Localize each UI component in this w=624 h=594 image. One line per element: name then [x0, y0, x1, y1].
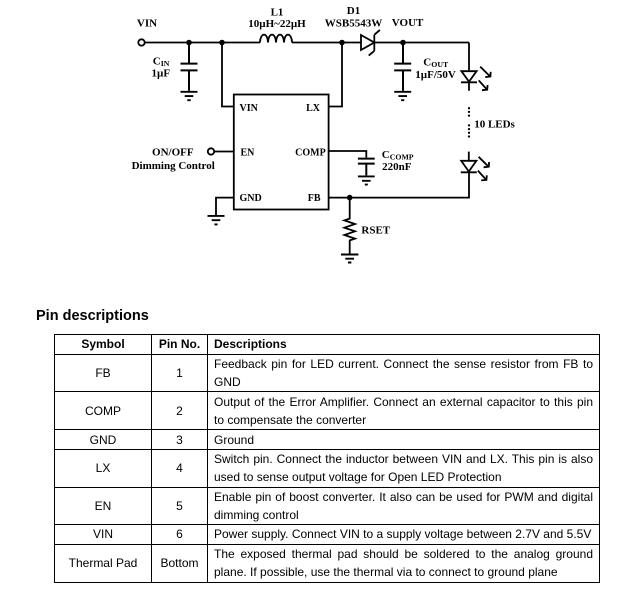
ground below CCOMP — [358, 176, 375, 184]
junction VOUT node — [400, 40, 406, 46]
resistor RSET — [344, 198, 355, 254]
capacitor CCOMP — [358, 159, 375, 176]
capacitor COUT — [394, 43, 411, 91]
svg-text:RSET: RSET — [361, 224, 390, 236]
svg-text:10µH~22µH: 10µH~22µH — [248, 18, 306, 30]
junction LX node — [339, 40, 345, 46]
svg-text:COMP: COMP — [295, 148, 326, 159]
LED D3 bottom of string — [468, 152, 470, 161]
svg-text:GND: GND — [240, 193, 262, 204]
ground below RSET — [341, 255, 358, 263]
ground below GND pin — [208, 216, 225, 225]
svg-text:220nF: 220nF — [382, 161, 412, 173]
svg-text:VIN: VIN — [240, 103, 259, 114]
svg-text:COUT: COUT — [423, 56, 449, 69]
junction VIN-pin node — [219, 40, 225, 46]
svg-text:10 LEDs: 10 LEDs — [474, 119, 515, 131]
wire inductor to diode anode — [292, 42, 361, 44]
wire FB pin to LED string bottom — [329, 173, 469, 198]
ground below CIN — [181, 92, 198, 100]
wire VIN rail to inductor — [145, 42, 260, 44]
svg-text:CCOMP: CCOMP — [382, 149, 414, 162]
wire EN terminal to EN pin — [214, 151, 234, 153]
LED D2 top of string — [461, 71, 476, 81]
wire GND pin to ground — [216, 198, 234, 215]
svg-text:VOUT: VOUT — [392, 17, 424, 29]
svg-text:1µF: 1µF — [152, 68, 171, 80]
svg-text:WSB5543W: WSB5543W — [325, 18, 382, 30]
svg-text:D1: D1 — [347, 5, 360, 17]
diode D1 (Schottky) — [361, 35, 374, 50]
svg-text:1µF/50V: 1µF/50V — [415, 69, 456, 81]
wire COMP pin to CCOMP — [329, 151, 367, 158]
LED D2 light arrows — [479, 67, 491, 91]
LED D3 light arrows — [478, 157, 489, 181]
op-amp U1 boost converter IC body — [234, 95, 329, 210]
svg-text:ON/OFF: ON/OFF — [152, 147, 194, 159]
svg-text:CIN: CIN — [153, 56, 170, 69]
wire VIN node down to VIN pin — [222, 43, 234, 107]
node VIN input terminal — [138, 39, 144, 45]
wire LX pin up to inductor/diode node — [329, 43, 342, 107]
svg-text:LX: LX — [306, 103, 321, 114]
svg-text:EN: EN — [241, 148, 256, 159]
junction CIN node — [186, 40, 192, 46]
junction FB-RSET node — [347, 195, 353, 201]
capacitor CIN — [181, 43, 198, 91]
wire diode cathode to VOUT corner — [374, 42, 469, 44]
wire VOUT down to LED string — [468, 43, 470, 71]
dotted ellipsis LED string continuation — [468, 107, 470, 138]
svg-text:FB: FB — [308, 193, 321, 204]
node EN input terminal — [208, 148, 214, 154]
svg-text:Dimming Control: Dimming Control — [132, 160, 215, 172]
inductor L1 — [260, 35, 292, 43]
svg-text:L1: L1 — [271, 6, 284, 18]
svg-text:VIN: VIN — [137, 17, 157, 29]
ground below COUT — [394, 92, 411, 100]
